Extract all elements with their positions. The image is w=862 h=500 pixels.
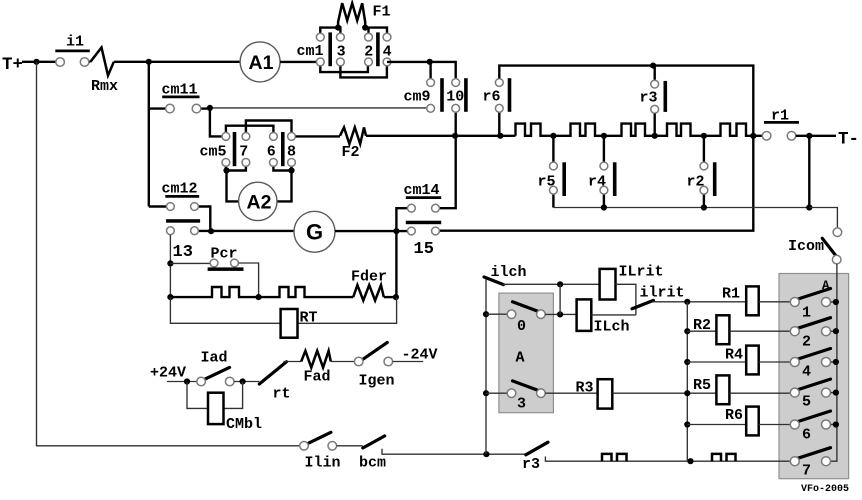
contactor cm12 contact circles — [167, 203, 175, 211]
node rail Icom junction — [806, 204, 812, 210]
pushbutton Pcr bar — [208, 267, 244, 271]
node junction Rmx to vertical rail x149 — [146, 59, 152, 65]
svg-text:r6: r6 — [483, 89, 501, 106]
wire bus to R4 — [687, 361, 746, 363]
svg-text:A1: A1 — [249, 52, 274, 74]
wire switch 0 to ILch — [545, 313, 576, 315]
wire R2 to switch 2 — [729, 330, 789, 332]
switch Igen contacts — [354, 357, 363, 366]
svg-text:1: 1 — [802, 305, 811, 322]
op meter A2 — [239, 182, 277, 220]
contactor cm1 pole 3 bars — [328, 32, 332, 66]
wire A1 to cm1 — [280, 61, 320, 63]
node chain tap 10-stem — [452, 133, 458, 139]
wire switch 4 to rail — [831, 361, 837, 363]
wire cm1 top bracket right pair — [369, 28, 388, 33]
node bus row R6 — [684, 421, 690, 427]
switch ilch blade — [484, 277, 504, 285]
svg-text:F2: F2 — [342, 144, 360, 161]
switch 1 blade — [798, 289, 831, 300]
node junction left rail pulse wire — [167, 294, 173, 300]
wire to Pcr — [170, 262, 209, 264]
wire r5r4r2 common rail — [553, 207, 809, 209]
wire A2 left lead — [227, 171, 239, 202]
svg-text:T-: T- — [838, 130, 859, 150]
wire switch 1 to rail — [831, 301, 837, 303]
svg-text:T+: T+ — [2, 55, 23, 75]
relay coil RT — [281, 309, 298, 338]
node rail row 4 — [833, 359, 839, 365]
contactor cm1 contact circles — [316, 33, 324, 41]
contact r5 bar — [562, 162, 566, 196]
svg-text:3: 3 — [517, 396, 526, 413]
node chain tap r4 — [601, 133, 607, 139]
svg-text:cm12: cm12 — [162, 181, 198, 198]
wire switch 2 to rail — [831, 330, 837, 332]
svg-text:i1: i1 — [66, 34, 84, 51]
svg-text:CMbl: CMbl — [226, 416, 262, 433]
node junction CMbl left — [184, 378, 190, 384]
wire junction to Icom — [809, 208, 837, 229]
contact cm9 bar — [440, 78, 444, 112]
svg-text:R6: R6 — [725, 407, 743, 424]
wire cm12 right elbow — [199, 207, 211, 232]
node junction bottom rail — [483, 451, 489, 457]
wire T+ to A1 main positive rail — [22, 61, 240, 63]
node bus row R4 — [684, 359, 690, 365]
wire Iad to rt — [234, 381, 259, 383]
svg-text:rt: rt — [273, 386, 291, 403]
pushbutton Pcr contacts — [210, 259, 218, 267]
wire cm1 to cm9-10 block — [387, 62, 456, 79]
wire r6 top to upper bus — [440, 66, 754, 231]
svg-text:F1: F1 — [373, 4, 391, 21]
node junction ILrit-ILch left — [557, 281, 563, 287]
switch Icom blade — [822, 238, 837, 257]
node cm5 right A2 junction — [288, 167, 294, 173]
node junction bus bottom — [687, 458, 693, 464]
wire cm5 to F2 — [296, 135, 340, 137]
wire Ilin to bcm — [337, 445, 363, 447]
node rail row 2 — [833, 328, 839, 334]
wire rail down to cm11 and cm12 — [148, 62, 150, 207]
relay coil CMbl leads — [187, 382, 243, 409]
svg-text:7: 7 — [802, 463, 811, 480]
svg-text:r3: r3 — [640, 90, 658, 107]
wire Fder to right rail — [384, 296, 397, 298]
svg-text:+24V: +24V — [150, 365, 186, 382]
node junction T- branch — [806, 133, 812, 139]
node rail row 0 — [483, 311, 489, 317]
wire rail to switch 0 — [486, 313, 507, 315]
wire rail to cm11 — [149, 107, 166, 109]
svg-text:ILrit: ILrit — [619, 264, 664, 281]
wire rt to Fad — [284, 361, 302, 363]
svg-text:10: 10 — [446, 89, 464, 106]
contact r2 circles — [700, 162, 708, 170]
resistor chain with square pulses — [516, 124, 754, 136]
wire left vertical rail from T+ down to bottom row — [37, 62, 300, 446]
node rail row 3 — [483, 390, 489, 396]
node bus row R5 — [684, 390, 690, 396]
switch 4 blade — [798, 349, 831, 360]
svg-text:A: A — [516, 350, 525, 367]
svg-text:Fad: Fad — [304, 369, 331, 386]
svg-text:R2: R2 — [693, 317, 711, 334]
wire T- junction down — [808, 136, 810, 208]
contact r3 circles — [651, 80, 659, 88]
switch r3 blade — [526, 442, 548, 455]
svg-text:cm5: cm5 — [200, 144, 227, 161]
svg-text:15: 15 — [414, 240, 434, 259]
resistor R3 — [598, 379, 613, 408]
svg-text:2: 2 — [802, 334, 811, 351]
node junction CMbl right — [240, 378, 246, 384]
node rail row 5 — [833, 390, 839, 396]
node junction Fder right — [393, 294, 399, 300]
node junction at T+ rail — [33, 59, 39, 65]
contact r4 circles — [600, 162, 608, 170]
svg-text:Ilin: Ilin — [305, 455, 341, 472]
svg-text:bcm: bcm — [359, 455, 386, 472]
wire cm5 bottom bracket pins 3-4 — [273, 167, 291, 171]
switch Icom contacts — [833, 228, 842, 237]
wire cm1 bottom bracket pins 2-4 — [340, 66, 387, 77]
switch ilrit blade — [632, 300, 653, 308]
wire R6 to switch 6 — [759, 424, 790, 426]
svg-text:Icom: Icom — [788, 238, 824, 255]
node rail row 6 — [833, 421, 839, 427]
svg-text:Iad: Iad — [201, 350, 228, 367]
wire G to cm14 — [335, 230, 407, 232]
svg-text:r3: r3 — [522, 456, 540, 473]
switch 2 blade — [798, 318, 831, 329]
fuse resistor F1 — [338, 3, 365, 28]
switch 6 contacts — [790, 420, 799, 429]
wire r2 stems — [703, 136, 705, 208]
resistor pulses on bottom wire left pair — [602, 454, 627, 461]
svg-text:6: 6 — [802, 427, 811, 444]
wire left selector rail — [485, 280, 487, 455]
switch i1 contacts — [56, 58, 65, 67]
wire switch 6 to rail — [831, 424, 837, 426]
switch 5 contacts — [790, 388, 799, 397]
switch 3 contacts — [507, 389, 516, 398]
contact r6 bar — [508, 78, 512, 112]
contactor cm14 bar — [406, 221, 441, 225]
wire 13 down from cm12 — [169, 235, 171, 297]
node chain tap r6 — [497, 133, 503, 139]
node chain tap r2 — [701, 133, 707, 139]
wire Icom to selector box A right — [830, 264, 837, 461]
wire R5 to switch 5 — [729, 392, 789, 394]
wire cm5 top bracket pins 1-3 — [226, 126, 274, 133]
wire cm11 right to node — [201, 107, 210, 109]
fuse resistor F2 — [340, 127, 366, 144]
relay coil ILrit — [600, 269, 616, 300]
node rail r2 — [701, 204, 707, 210]
switch 5 blade — [798, 379, 831, 390]
switch Ilin contacts — [300, 442, 309, 451]
switch 2 contacts — [790, 327, 799, 336]
wire r3 step to selector box — [545, 457, 789, 462]
wire r6 bottom stem — [498, 112, 500, 135]
wire r1 to T- — [796, 135, 836, 137]
wire common bus vertical — [686, 302, 688, 461]
wire right rail down to Fder node — [395, 231, 397, 297]
node rail r4 — [601, 204, 607, 210]
switch 3 blade — [513, 381, 541, 391]
wire RT bracket — [170, 297, 396, 323]
resistor R1 — [746, 286, 759, 315]
switch rt blade — [259, 362, 286, 384]
svg-text:R1: R1 — [722, 286, 740, 303]
switch 7 contacts — [790, 457, 799, 466]
resistor Rmx — [90, 48, 113, 76]
wire r3 top stem — [654, 66, 656, 80]
wire bus to R6 — [687, 424, 746, 426]
svg-text:-24V: -24V — [402, 347, 438, 364]
wire vertical ILrit-ILch left tie — [559, 284, 561, 314]
wire cm12 bottom right to G — [199, 230, 295, 232]
node chain tap r3 — [652, 133, 658, 139]
node junction cm11 to cm5 rail — [207, 105, 213, 111]
wire pulse line with square pulses — [170, 287, 353, 297]
wire ilch to ILrit — [503, 283, 600, 285]
wire contact 10 bottom stem down to cm14 — [440, 112, 456, 208]
node junction cm12 — [208, 228, 214, 234]
contactor cm14 contact circles — [408, 204, 416, 212]
switch Iad blade — [204, 367, 230, 379]
wire R1 to switch 1 — [759, 301, 790, 303]
resistor R4 — [746, 346, 759, 375]
node chain right end junction — [750, 133, 756, 139]
switch 0 blade — [513, 302, 541, 312]
svg-text:cm9: cm9 — [404, 89, 431, 106]
relay coil ILch — [577, 299, 592, 331]
node chain tap r5 — [550, 133, 556, 139]
wire cm5 bottom bracket pins 1-2 — [226, 167, 246, 171]
wire r4 stems — [603, 136, 605, 208]
svg-text:G: G — [306, 220, 323, 245]
selector block A left (gray box) — [499, 293, 554, 413]
switch 7 blade — [798, 448, 831, 459]
wire cm9 bottom to cm11 (thin) — [210, 107, 427, 109]
wire Igen to -24V — [393, 361, 424, 363]
wire R3 to bus and R5 — [612, 392, 716, 394]
svg-text:R3: R3 — [576, 380, 594, 397]
contact r6 circles — [495, 79, 503, 87]
svg-text:R4: R4 — [725, 347, 743, 364]
node junction Pcr branch — [256, 294, 262, 300]
switch Ilin blade — [307, 432, 331, 444]
node junction cm14 left — [393, 228, 399, 234]
wire cm1 top bracket left pair — [320, 28, 340, 33]
svg-text:VFo-2005: VFo-2005 — [801, 484, 849, 495]
node junction ILch left — [557, 311, 563, 317]
switch r1 contacts — [762, 132, 771, 141]
wire switch 3 to R3 — [545, 392, 597, 394]
node rail row 1 — [833, 299, 839, 305]
wire chain end to r1 — [753, 135, 762, 137]
wire ILrit right elbow — [591, 284, 636, 315]
svg-text:Fder: Fder — [351, 269, 387, 286]
relay coil CMbl — [208, 393, 224, 424]
contact r4 bar — [613, 162, 617, 196]
svg-text:Rmx: Rmx — [91, 78, 118, 95]
contactor cm12 bar — [166, 219, 200, 223]
resistor Fad — [301, 351, 331, 368]
resistor Fder — [353, 285, 384, 301]
wire rail to cm12 — [149, 205, 166, 207]
svg-text:A2: A2 — [247, 192, 272, 214]
switch 0 contacts — [507, 310, 516, 319]
wire ilrit to R1 — [653, 301, 746, 303]
switch bcm blade — [363, 436, 385, 448]
wire Fad to Igen — [331, 361, 355, 363]
galvanometer G — [294, 211, 335, 252]
node junction cm9 stem — [427, 59, 433, 65]
svg-text:13: 13 — [173, 243, 193, 262]
wire Pcr right branch — [239, 263, 259, 297]
svg-text:R5: R5 — [693, 377, 711, 394]
wire cm1 bottom bracket pins 1-3 — [320, 66, 368, 72]
node F1 left junction — [335, 25, 341, 31]
wire r3 bottom stem to chain — [654, 114, 656, 136]
switch 1 contacts — [790, 298, 799, 307]
node junction r3 top — [650, 63, 656, 69]
svg-text:ilch: ilch — [491, 264, 527, 281]
wire +24V to Iad — [167, 381, 197, 383]
resistor R2 — [716, 315, 729, 344]
wire bcm step to r3 — [382, 449, 526, 454]
node F1 right junction — [362, 25, 368, 31]
contact r3 bar — [664, 81, 668, 112]
svg-text:RT: RT — [300, 310, 318, 327]
node bus row R2 — [684, 328, 690, 334]
wire cm14 left elbow — [396, 208, 407, 231]
node bus top junction — [684, 299, 690, 305]
node junction 13 to Pcr — [167, 260, 173, 266]
wire R4 to switch 4 — [759, 361, 790, 363]
contact r5 circles — [550, 162, 558, 170]
svg-text:0: 0 — [517, 318, 526, 335]
wire A2 right lead — [277, 171, 292, 202]
resistor R6 — [746, 407, 759, 436]
node cm5 left A2 junction — [223, 167, 229, 173]
contactor cm5 bars — [233, 132, 237, 166]
contactor cm1 pole 2-4 bar — [376, 32, 380, 66]
resistor pulses on bottom wire right pair — [712, 454, 736, 461]
contact cm9 circles — [427, 79, 435, 87]
wire F2 to resistor chain — [366, 135, 516, 137]
svg-text:4: 4 — [802, 364, 811, 381]
svg-text:ILch: ILch — [594, 319, 630, 336]
contactor cm5 contact circles — [222, 133, 230, 141]
wire cm9 top stem — [429, 62, 431, 79]
contact 10 bar — [464, 78, 468, 112]
wire rail to switch 3 — [486, 392, 507, 394]
contact r2 bar — [713, 162, 717, 196]
wire r5 stems — [552, 136, 554, 208]
wire rail down into cm5 — [210, 108, 222, 136]
selector block A right (gray box) — [779, 274, 849, 479]
switch 6 blade — [798, 411, 831, 422]
svg-text:ilrit: ilrit — [640, 285, 685, 302]
switch Igen blade — [363, 342, 388, 359]
switch 4 contacts — [790, 358, 799, 367]
wire cm5 top bracket pins 2-4 — [246, 121, 292, 133]
op meter A1 — [240, 42, 280, 82]
svg-text:Igen: Igen — [359, 373, 395, 390]
resistor R5 — [716, 375, 729, 404]
wire bus to R2 — [687, 330, 716, 332]
svg-text:5: 5 — [802, 394, 811, 411]
switch cm11 contacts — [166, 104, 175, 113]
wire switch 5 to rail — [831, 392, 837, 394]
switch Iad contacts — [197, 377, 206, 386]
